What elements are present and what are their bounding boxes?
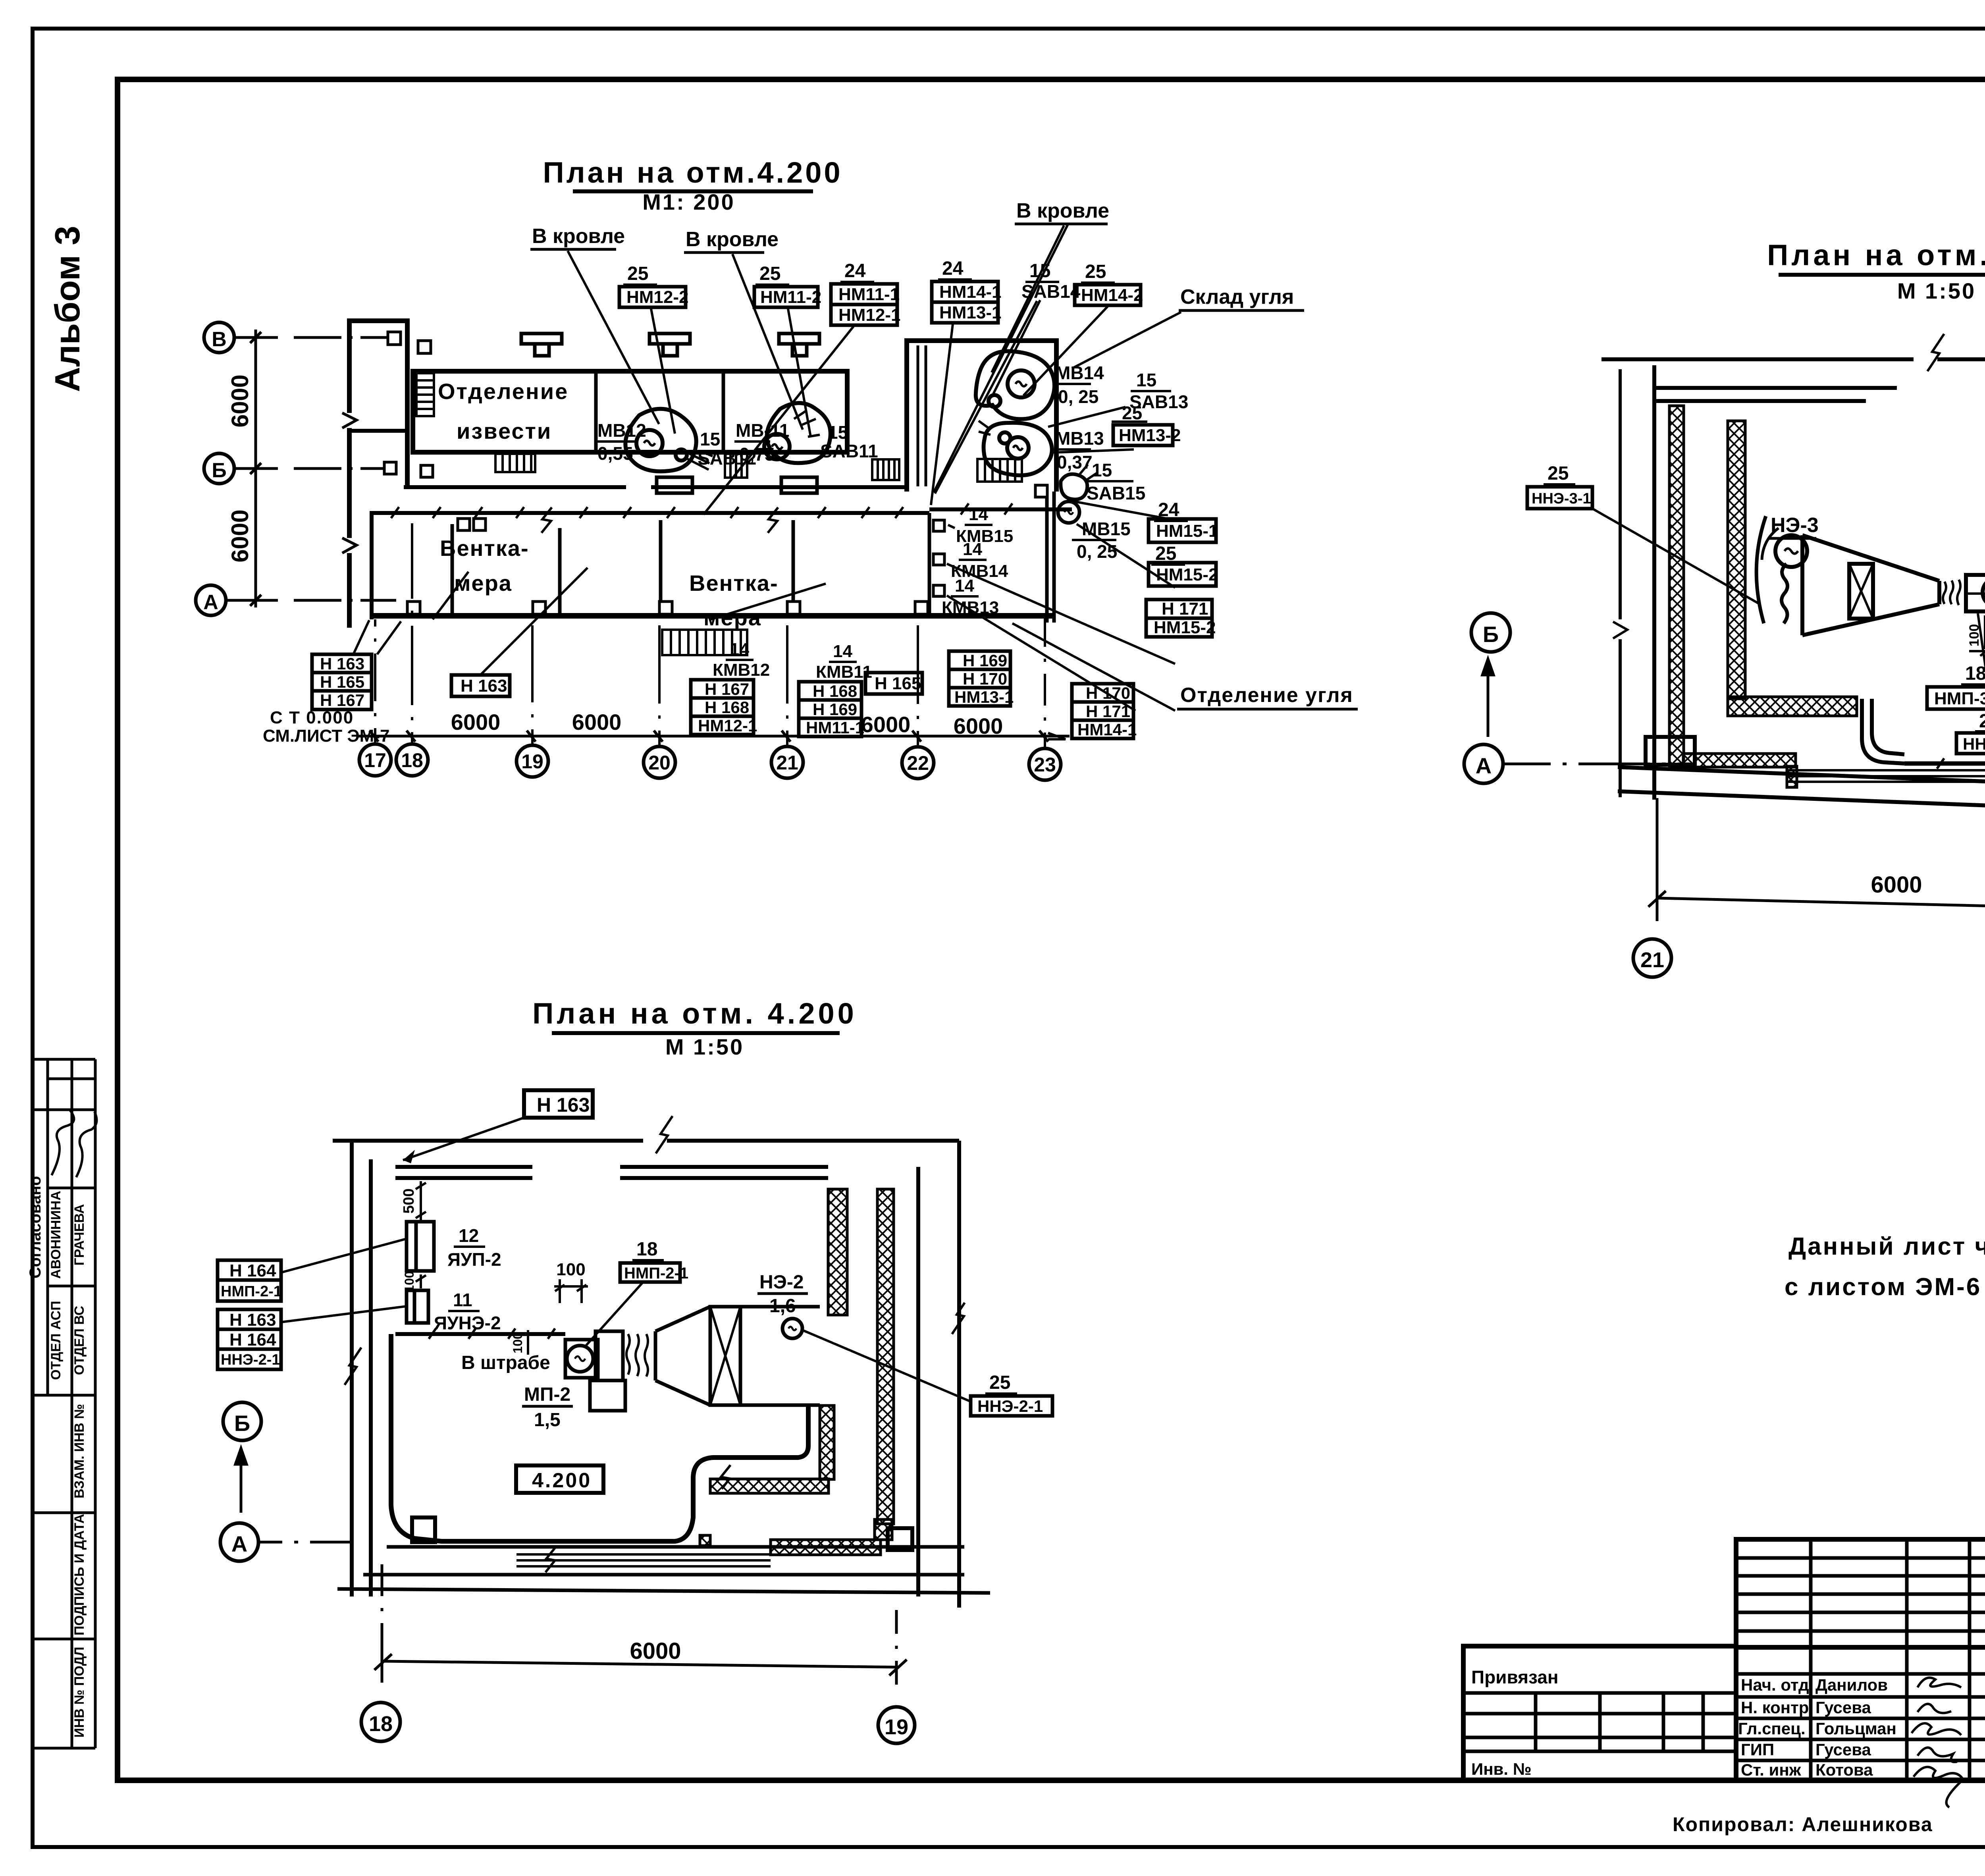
svg-text:6000: 6000 bbox=[1871, 872, 1922, 898]
svg-text:А: А bbox=[1476, 753, 1492, 778]
svg-text:МВ13: МВ13 bbox=[1055, 428, 1104, 449]
column marker squares bbox=[384, 332, 1047, 614]
svg-text:17: 17 bbox=[364, 749, 386, 771]
svg-text:Б: Б bbox=[1483, 622, 1499, 647]
left outer wall bbox=[1652, 365, 1656, 800]
svg-text:НМ15-2: НМ15-2 bbox=[1156, 565, 1218, 584]
signatures (squiggles) in left table bbox=[52, 1110, 96, 1177]
svg-text:НМ12-1: НМ12-1 bbox=[698, 716, 757, 735]
dim 500 plan3 bbox=[416, 1181, 426, 1221]
svg-text:Нач. отд: Нач. отд bbox=[1741, 1675, 1809, 1694]
hatched walls plan2 bbox=[1669, 406, 1857, 787]
КМВ squares and labels bbox=[933, 520, 944, 596]
svg-text:ЯУП-2: ЯУП-2 bbox=[447, 1249, 501, 1270]
svg-text:М1: 200: М1: 200 bbox=[642, 189, 735, 214]
svg-text:0, 25: 0, 25 bbox=[1077, 541, 1117, 562]
dimension 6000 plan3 bbox=[374, 1564, 907, 1685]
svg-text:24: 24 bbox=[942, 258, 964, 279]
svg-text:21: 21 bbox=[776, 752, 798, 774]
svg-text:100: 100 bbox=[402, 1271, 416, 1292]
svg-text:25: 25 bbox=[1085, 261, 1106, 282]
bottom dimension row plan1 bbox=[357, 731, 1070, 742]
svg-text:14: 14 bbox=[969, 505, 988, 524]
svg-text:извести: извести bbox=[457, 418, 552, 443]
svg-text:0,37: 0,37 bbox=[1057, 452, 1093, 472]
callout leader lines plan1 bbox=[353, 224, 1181, 711]
ladder symbols bbox=[416, 373, 1022, 655]
svg-text:22: 22 bbox=[907, 752, 929, 774]
svg-text:АВОНИНИНА: АВОНИНИНА bbox=[48, 1191, 64, 1279]
leaders from left boxes to cabinets bbox=[281, 1239, 407, 1322]
svg-text:ННЭ-3-1: ННЭ-3-1 bbox=[1532, 490, 1591, 507]
svg-text:ОТДЕЛ ВС: ОТДЕЛ ВС bbox=[72, 1306, 87, 1375]
svg-text:Н 163: Н 163 bbox=[229, 1310, 276, 1330]
stairs bottom center plan3 bbox=[516, 1554, 771, 1566]
fan МВ15 (right, on cable line) bbox=[1058, 465, 1098, 523]
svg-text:План на отм. 4.200: План на отм. 4.200 bbox=[1767, 239, 1985, 272]
svg-text:1,6: 1,6 bbox=[769, 1296, 796, 1317]
building plan1 walls bbox=[342, 321, 1056, 628]
top-left vestibule bbox=[347, 321, 407, 488]
svg-text:6000: 6000 bbox=[954, 713, 1003, 738]
svg-text:14: 14 bbox=[730, 640, 749, 659]
inner top wall band bbox=[1654, 388, 1897, 401]
fan МВ14 bbox=[976, 351, 1054, 419]
title block texts bbox=[1738, 1559, 1985, 1782]
note text: Данный лист читать совместно с листом ЭМ-6. bbox=[1785, 1233, 1985, 1301]
svg-text:НМ12-1: НМ12-1 bbox=[838, 305, 901, 325]
svg-text:6000: 6000 bbox=[572, 710, 622, 735]
svg-text:20: 20 bbox=[648, 752, 671, 774]
grid circle 21 plan2 bbox=[1633, 939, 1671, 977]
svg-text:ННЭ-3-1: ННЭ-3-1 bbox=[1963, 735, 1985, 753]
svg-text:мера: мера bbox=[703, 605, 761, 630]
svg-text:14: 14 bbox=[833, 642, 852, 661]
svg-text:Н 169: Н 169 bbox=[813, 700, 857, 719]
svg-text:ГИП: ГИП bbox=[1741, 1740, 1774, 1759]
dim 100 between cabinets bbox=[416, 1274, 426, 1288]
axis Б circle plan2 bbox=[1471, 613, 1510, 652]
vertical dimension line with 6000 texts bbox=[250, 330, 261, 607]
svg-text:Копировал: Алешникова: Копировал: Алешникова bbox=[1673, 1813, 1933, 1836]
thin stacked rows top-left part bbox=[1736, 1556, 1985, 1560]
svg-text:11: 11 bbox=[453, 1290, 472, 1310]
plan3 walls bbox=[333, 1116, 990, 1608]
svg-text:НМ14-1: НМ14-1 bbox=[1077, 720, 1137, 739]
scroll coil bbox=[1782, 564, 1788, 623]
svg-text:6000: 6000 bbox=[861, 712, 911, 737]
svg-text:НМ15-2: НМ15-2 bbox=[1154, 618, 1216, 637]
svg-text:25: 25 bbox=[989, 1372, 1010, 1393]
svg-text:Гусева: Гусева bbox=[1815, 1740, 1871, 1759]
svg-text:М 1:50: М 1:50 bbox=[665, 1034, 744, 1059]
corridor wall under band bbox=[404, 485, 626, 489]
column blocks plan3 bbox=[412, 1517, 912, 1550]
bottom wall bbox=[363, 1547, 964, 1575]
svg-text:МВ15: МВ15 bbox=[1082, 519, 1131, 539]
svg-text:План на отм.4.200: План на отм.4.200 bbox=[543, 156, 842, 189]
svg-text:Данилов: Данилов bbox=[1815, 1675, 1888, 1694]
svg-text:Н 163: Н 163 bbox=[537, 1094, 590, 1116]
svg-text:Н 171: Н 171 bbox=[1162, 599, 1208, 619]
svg-text:Согласовано: Согласовано bbox=[27, 1176, 44, 1278]
svg-text:НМП-3-1: НМП-3-1 bbox=[1934, 689, 1985, 708]
arrow up plan3 bbox=[235, 1448, 247, 1513]
svg-text:НМ14-1: НМ14-1 bbox=[939, 282, 1002, 302]
svg-text:Альбом 3: Альбом 3 bbox=[48, 226, 87, 392]
svg-text:Б: Б bbox=[212, 459, 226, 482]
svg-text:Данный лист читать совместн: Данный лист читать совместно bbox=[1788, 1233, 1985, 1260]
left label boxes plan1 bbox=[312, 654, 372, 710]
left wall double bbox=[352, 1141, 371, 1596]
Н 163 box top bbox=[524, 1090, 593, 1118]
svg-text:В штрабе: В штрабе bbox=[461, 1352, 550, 1373]
svg-text:КМВ12: КМВ12 bbox=[713, 660, 770, 680]
svg-text:НМ13-1: НМ13-1 bbox=[954, 688, 1014, 706]
dim 400 and 100 near motor bbox=[1969, 609, 1985, 656]
svg-text:Б: Б bbox=[234, 1411, 250, 1436]
svg-text:6000: 6000 bbox=[227, 509, 253, 562]
svg-text:Н 163: Н 163 bbox=[320, 654, 364, 673]
svg-text:25: 25 bbox=[627, 263, 648, 284]
damper with X bbox=[1849, 564, 1873, 619]
axis А circle plan2 bbox=[1464, 744, 1503, 783]
inner top wall band bbox=[395, 1167, 532, 1178]
svg-text:19: 19 bbox=[521, 750, 543, 773]
name rows bbox=[1736, 1672, 1985, 1676]
svg-text:Склад угля: Склад угля bbox=[1180, 285, 1294, 308]
bottom cable line with ticks plan2 bbox=[1904, 758, 1985, 769]
А dash-dot plan3 bbox=[258, 1541, 350, 1544]
svg-text:SАВ15: SАВ15 bbox=[1087, 483, 1145, 503]
svg-text:НМ14-2: НМ14-2 bbox=[1081, 285, 1143, 305]
svg-text:В: В bbox=[212, 328, 227, 351]
title block signatures bbox=[1912, 1678, 1963, 1808]
top wall with break bbox=[333, 1139, 959, 1143]
vertical dividers left part bbox=[1809, 1539, 1813, 1780]
flex connector bbox=[1943, 580, 1960, 605]
svg-text:14: 14 bbox=[955, 576, 974, 596]
svg-text:Н 167: Н 167 bbox=[320, 691, 364, 710]
column block bottom-left plan2 bbox=[1646, 737, 1695, 765]
partitions lower band bbox=[452, 513, 929, 613]
svg-text:Н 168: Н 168 bbox=[705, 698, 749, 717]
duct elbow bottom bbox=[1862, 699, 1904, 764]
svg-text:Отделение угля: Отделение угля bbox=[1180, 684, 1353, 707]
svg-text:Н 164: Н 164 bbox=[229, 1330, 276, 1350]
svg-text:15: 15 bbox=[1092, 460, 1112, 480]
Н169 Н170 НМ13-1 box bbox=[949, 651, 1010, 706]
svg-text:15: 15 bbox=[828, 422, 848, 443]
svg-text:НМП-2-1: НМП-2-1 bbox=[221, 1283, 282, 1300]
svg-text:0,55: 0,55 bbox=[597, 443, 633, 464]
4.200 box bbox=[516, 1465, 603, 1493]
svg-text:Н 170: Н 170 bbox=[963, 669, 1007, 688]
cable line with ticks (corridor) bbox=[370, 503, 1072, 533]
svg-text:НМ12-2: НМ12-2 bbox=[626, 287, 689, 307]
dim 100 vertical small bbox=[527, 1330, 529, 1355]
svg-text:Н 165: Н 165 bbox=[875, 674, 921, 693]
svg-text:Гл.спец.: Гл.спец. bbox=[1738, 1719, 1806, 1738]
grid circle 19 plan3 bbox=[878, 1707, 915, 1743]
fan МВ13 bbox=[979, 421, 1052, 475]
svg-text:ННЭ-2-1: ННЭ-2-1 bbox=[977, 1397, 1043, 1415]
plan2 walls bbox=[1601, 314, 1985, 814]
svg-text:Н 169: Н 169 bbox=[963, 651, 1007, 670]
svg-text:15: 15 bbox=[700, 429, 720, 449]
svg-text:19: 19 bbox=[885, 1715, 908, 1739]
svg-text:18: 18 bbox=[1965, 663, 1985, 684]
floor step lines plan2 bbox=[1787, 770, 1985, 782]
grid circles 17-23 bbox=[359, 744, 1061, 780]
svg-text:В кровле: В кровле bbox=[1016, 199, 1109, 222]
svg-text:ПОДПИСЬ И ДАТА: ПОДПИСЬ И ДАТА bbox=[72, 1514, 87, 1635]
svg-text:6000: 6000 bbox=[630, 1638, 681, 1664]
motor + pump unit plan3 bbox=[565, 1307, 820, 1411]
top wall with break bbox=[1601, 357, 1985, 361]
svg-text:18: 18 bbox=[401, 749, 423, 771]
svg-text:Гольцман: Гольцман bbox=[1815, 1719, 1896, 1738]
svg-text:План на отм. 4.200: План на отм. 4.200 bbox=[532, 997, 857, 1030]
svg-text:Н 165: Н 165 bbox=[320, 673, 364, 691]
svg-text:21: 21 bbox=[1979, 711, 1985, 732]
Привязан sub-table bbox=[1463, 1646, 1736, 1780]
lower block rows bbox=[71, 1395, 73, 1748]
axis circle В bbox=[204, 322, 234, 353]
svg-text:Отделение: Отделение bbox=[438, 379, 569, 404]
svg-text:Н 170: Н 170 bbox=[1086, 684, 1130, 702]
fan pedestals plan1 bbox=[657, 477, 817, 493]
svg-text:100: 100 bbox=[556, 1260, 585, 1279]
Н 165 box bbox=[865, 673, 922, 694]
grid axis dash-dot verticals bbox=[375, 523, 1045, 748]
svg-text:15: 15 bbox=[1136, 370, 1156, 390]
svg-text:В кровле: В кровле bbox=[532, 225, 625, 248]
svg-text:М 1:50: М 1:50 bbox=[1897, 278, 1976, 303]
svg-text:НЭ-2: НЭ-2 bbox=[759, 1272, 804, 1293]
dimension 6000 plan2 bbox=[1648, 798, 1985, 940]
Н164 НМП-2-1 box bbox=[218, 1260, 281, 1301]
svg-text:ОТДЕЛ АСП: ОТДЕЛ АСП bbox=[48, 1301, 64, 1380]
svg-text:мера: мера bbox=[454, 571, 512, 596]
svg-text:6000: 6000 bbox=[451, 710, 501, 735]
upper block (Согласовано) bbox=[33, 1058, 95, 1061]
svg-text:ВЗАМ. ИНВ №: ВЗАМ. ИНВ № bbox=[72, 1404, 87, 1498]
svg-text:Котова: Котова bbox=[1815, 1760, 1873, 1779]
fan МВ12 bbox=[625, 409, 713, 472]
upper right block bbox=[907, 341, 1056, 492]
Н163 Н164 ННЭ-2-1 box bbox=[218, 1309, 281, 1369]
lower right room right wall bbox=[1047, 492, 1054, 623]
motor box bbox=[1966, 575, 1985, 611]
main outline bbox=[1736, 1539, 1985, 1780]
svg-text:25: 25 bbox=[759, 263, 781, 284]
svg-text:Вентка-: Вентка- bbox=[689, 571, 779, 596]
Н170 Н171 НМ14-1 box bbox=[1072, 684, 1133, 738]
cone bbox=[1802, 535, 1939, 635]
svg-text:Инв. №: Инв. № bbox=[1471, 1760, 1532, 1778]
right walls bbox=[916, 1167, 920, 1596]
cabinets left plan3 bbox=[407, 1222, 434, 1323]
svg-text:Н 167: Н 167 bbox=[705, 680, 749, 698]
svg-text:ГРАЧЕВА: ГРАЧЕВА bbox=[72, 1204, 87, 1266]
axis circle А bbox=[196, 585, 226, 615]
svg-text:24: 24 bbox=[844, 260, 866, 281]
svg-text:18: 18 bbox=[636, 1239, 657, 1260]
svg-text:21: 21 bbox=[1640, 948, 1664, 972]
svg-text:18: 18 bbox=[369, 1712, 393, 1736]
svg-text:Н. контр: Н. контр bbox=[1741, 1698, 1809, 1717]
svg-text:ННЭ-2-1: ННЭ-2-1 bbox=[221, 1352, 280, 1368]
svg-text:МВ12: МВ12 bbox=[597, 420, 646, 441]
svg-text:Н 171: Н 171 bbox=[1086, 702, 1130, 721]
roof vent boxes bbox=[521, 334, 819, 356]
svg-text:А: А bbox=[203, 591, 218, 614]
grid circle 18 plan3 bbox=[361, 1702, 400, 1741]
svg-text:ЯУНЭ-2: ЯУНЭ-2 bbox=[434, 1313, 501, 1333]
axis dash-dot lines В Б А bbox=[226, 337, 396, 600]
svg-text:НМП-2-1: НМП-2-1 bbox=[624, 1265, 688, 1282]
А axis dash-dot bbox=[1503, 763, 1690, 765]
dim 100 horizontal bbox=[554, 1279, 588, 1303]
svg-text:НМ15-1: НМ15-1 bbox=[1156, 521, 1218, 541]
left margin rotated texts bbox=[27, 1176, 87, 1738]
svg-text:КМВ13: КМВ13 bbox=[942, 598, 999, 617]
axis Б circle plan3 bbox=[223, 1402, 261, 1440]
svg-text:0, 25: 0, 25 bbox=[1058, 386, 1098, 407]
svg-text:С Т 0.000: С Т 0.000 bbox=[270, 708, 354, 727]
svg-text:НМ11-1: НМ11-1 bbox=[838, 285, 900, 304]
svg-text:4.200: 4.200 bbox=[532, 1469, 592, 1492]
svg-text:500: 500 bbox=[401, 1188, 417, 1213]
svg-text:Ст. инж: Ст. инж bbox=[1741, 1760, 1802, 1779]
svg-text:25: 25 bbox=[1548, 463, 1569, 484]
bottom wall bbox=[370, 613, 1053, 619]
svg-text:с листом ЭМ-6 .: с листом ЭМ-6 . bbox=[1785, 1273, 1985, 1301]
svg-text:НМ11-2: НМ11-2 bbox=[760, 287, 821, 307]
lower band left wall bbox=[370, 513, 374, 619]
cable line from cabinets to motor plan3 bbox=[391, 1328, 808, 1572]
svg-text:23: 23 bbox=[1034, 754, 1056, 776]
axis circle Б bbox=[204, 453, 234, 484]
svg-text:НМ13-1: НМ13-1 bbox=[939, 303, 1002, 322]
hatched walls plan3 bbox=[700, 1189, 894, 1555]
left outer wall with breaks bbox=[347, 321, 352, 628]
arrow up bbox=[1482, 659, 1494, 737]
svg-text:Привязан: Привязан bbox=[1471, 1667, 1559, 1687]
svg-text:НМ11-1: НМ11-1 bbox=[806, 718, 864, 737]
svg-text:Н 164: Н 164 bbox=[229, 1261, 276, 1280]
bottom wall lines bbox=[1618, 767, 1985, 814]
svg-text:НМ13-2: НМ13-2 bbox=[1119, 426, 1181, 445]
svg-text:МП-2: МП-2 bbox=[524, 1384, 570, 1405]
fan unit plan2 bbox=[1756, 516, 1985, 635]
svg-text:НЭ-3: НЭ-3 bbox=[1771, 514, 1819, 537]
upper room band bbox=[413, 371, 847, 452]
svg-text:В кровле: В кровле bbox=[686, 228, 779, 251]
svg-text:12: 12 bbox=[459, 1225, 479, 1246]
svg-text:6000: 6000 bbox=[227, 374, 253, 427]
svg-text:А: А bbox=[231, 1531, 247, 1556]
svg-text:25: 25 bbox=[1122, 403, 1142, 423]
svg-text:МВ-11: МВ-11 bbox=[736, 420, 789, 441]
svg-text:Н 168: Н 168 bbox=[813, 682, 857, 700]
svg-text:SАВ11: SАВ11 bbox=[820, 441, 878, 461]
axis А circle plan3 bbox=[220, 1523, 258, 1561]
svg-text:Гусева: Гусева bbox=[1815, 1698, 1871, 1717]
fan МВ-11 bbox=[764, 403, 831, 463]
svg-text:1,5: 1,5 bbox=[534, 1409, 561, 1431]
svg-text:ИНВ № ПОДЛ: ИНВ № ПОДЛ bbox=[72, 1647, 87, 1738]
svg-text:Н 163: Н 163 bbox=[461, 676, 507, 696]
svg-text:14: 14 bbox=[963, 540, 982, 559]
svg-text:Вентка-: Вентка- bbox=[440, 536, 529, 561]
